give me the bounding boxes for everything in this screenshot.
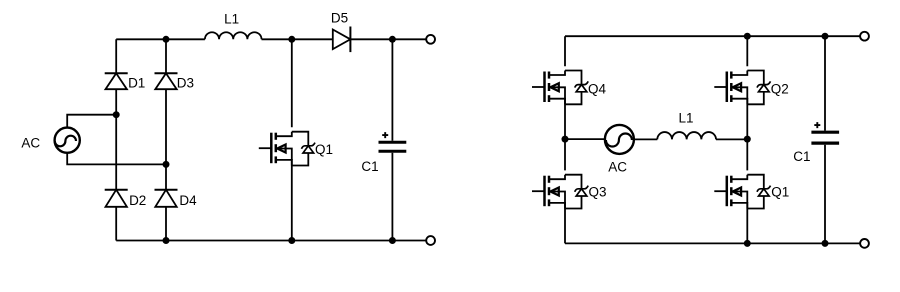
transistor Q3 <box>532 175 588 209</box>
transistor Q2 <box>714 71 770 105</box>
wire right leg (Q2/Q1) <box>746 36 748 243</box>
node: C1 bottom junction <box>389 237 396 244</box>
inductor L1 (left) <box>205 32 262 39</box>
svg-text:L1: L1 <box>224 11 239 26</box>
svg-text:AC: AC <box>21 135 40 150</box>
node: C1 top junction (right) <box>822 33 829 40</box>
svg-text:Q4: Q4 <box>588 81 607 96</box>
node: L1 right junction <box>744 136 751 143</box>
node: AC bottom tap <box>163 161 170 168</box>
node: AC left junction <box>562 136 569 143</box>
svg-text:Q1: Q1 <box>771 185 789 200</box>
wire Q1 drain <box>291 39 293 127</box>
diode D5 <box>333 27 351 53</box>
diode D4 <box>155 190 178 207</box>
terminal output- (left circuit) <box>426 236 435 245</box>
svg-text:D1: D1 <box>128 75 145 90</box>
svg-text:D2: D2 <box>129 193 146 208</box>
node: top-left junction (D3 top) <box>163 36 170 43</box>
transistor Q4 <box>532 71 588 105</box>
terminal output+ (left circuit) <box>426 35 435 44</box>
wire bridge leg 1 (D1/D2 column) <box>115 39 117 240</box>
diode D2 <box>105 190 128 207</box>
terminal output+ (right circuit) <box>860 32 869 41</box>
diode D1 <box>105 73 128 89</box>
svg-text:Q2: Q2 <box>771 81 789 96</box>
node: Q1 source junction <box>288 237 295 244</box>
wire AC source leads <box>67 115 166 165</box>
node: C1 top junction <box>389 36 396 43</box>
wire bottom rail right circuit <box>565 242 860 244</box>
inductor L1 (right) <box>657 132 716 139</box>
diode D3 <box>155 73 178 89</box>
wire top rail right circuit <box>565 35 860 37</box>
terminal output- (right circuit) <box>860 239 869 248</box>
node: AC top tap <box>113 111 120 118</box>
AC source (left) <box>55 128 80 153</box>
capacitor C1 (right) <box>811 122 839 143</box>
svg-text:Q1: Q1 <box>315 142 333 157</box>
wire Q1 source <box>291 159 293 241</box>
svg-text:D5: D5 <box>331 11 348 26</box>
svg-text:Q3: Q3 <box>588 185 606 200</box>
wire bridge leg 2 (D3/D4 column) <box>165 39 167 240</box>
svg-text:D4: D4 <box>179 193 197 208</box>
node: right-leg top junction <box>744 33 751 40</box>
wire left leg (Q4/Q3) <box>564 36 566 243</box>
wire C1 column (right) <box>824 36 826 243</box>
wire C1 column (left) <box>391 39 393 240</box>
node: right-leg bottom junction <box>744 240 751 247</box>
svg-text:C1: C1 <box>793 149 810 164</box>
transistor Q1 <box>714 175 770 209</box>
svg-text:AC: AC <box>608 160 627 175</box>
wire mid row <box>565 138 747 140</box>
node: Q1 drain junction <box>288 36 295 43</box>
capacitor C1 (left) <box>379 132 407 151</box>
wire top rail left circuit <box>116 38 426 40</box>
svg-text:D3: D3 <box>177 75 194 90</box>
svg-text:L1: L1 <box>678 111 693 126</box>
svg-text:C1: C1 <box>361 159 378 174</box>
transistor Q1 <box>259 132 315 166</box>
node: D4 bottom junction <box>163 237 170 244</box>
wire bottom rail left circuit <box>116 240 426 242</box>
AC source (right) <box>605 125 634 154</box>
node: C1 bottom junction (right) <box>822 240 829 247</box>
